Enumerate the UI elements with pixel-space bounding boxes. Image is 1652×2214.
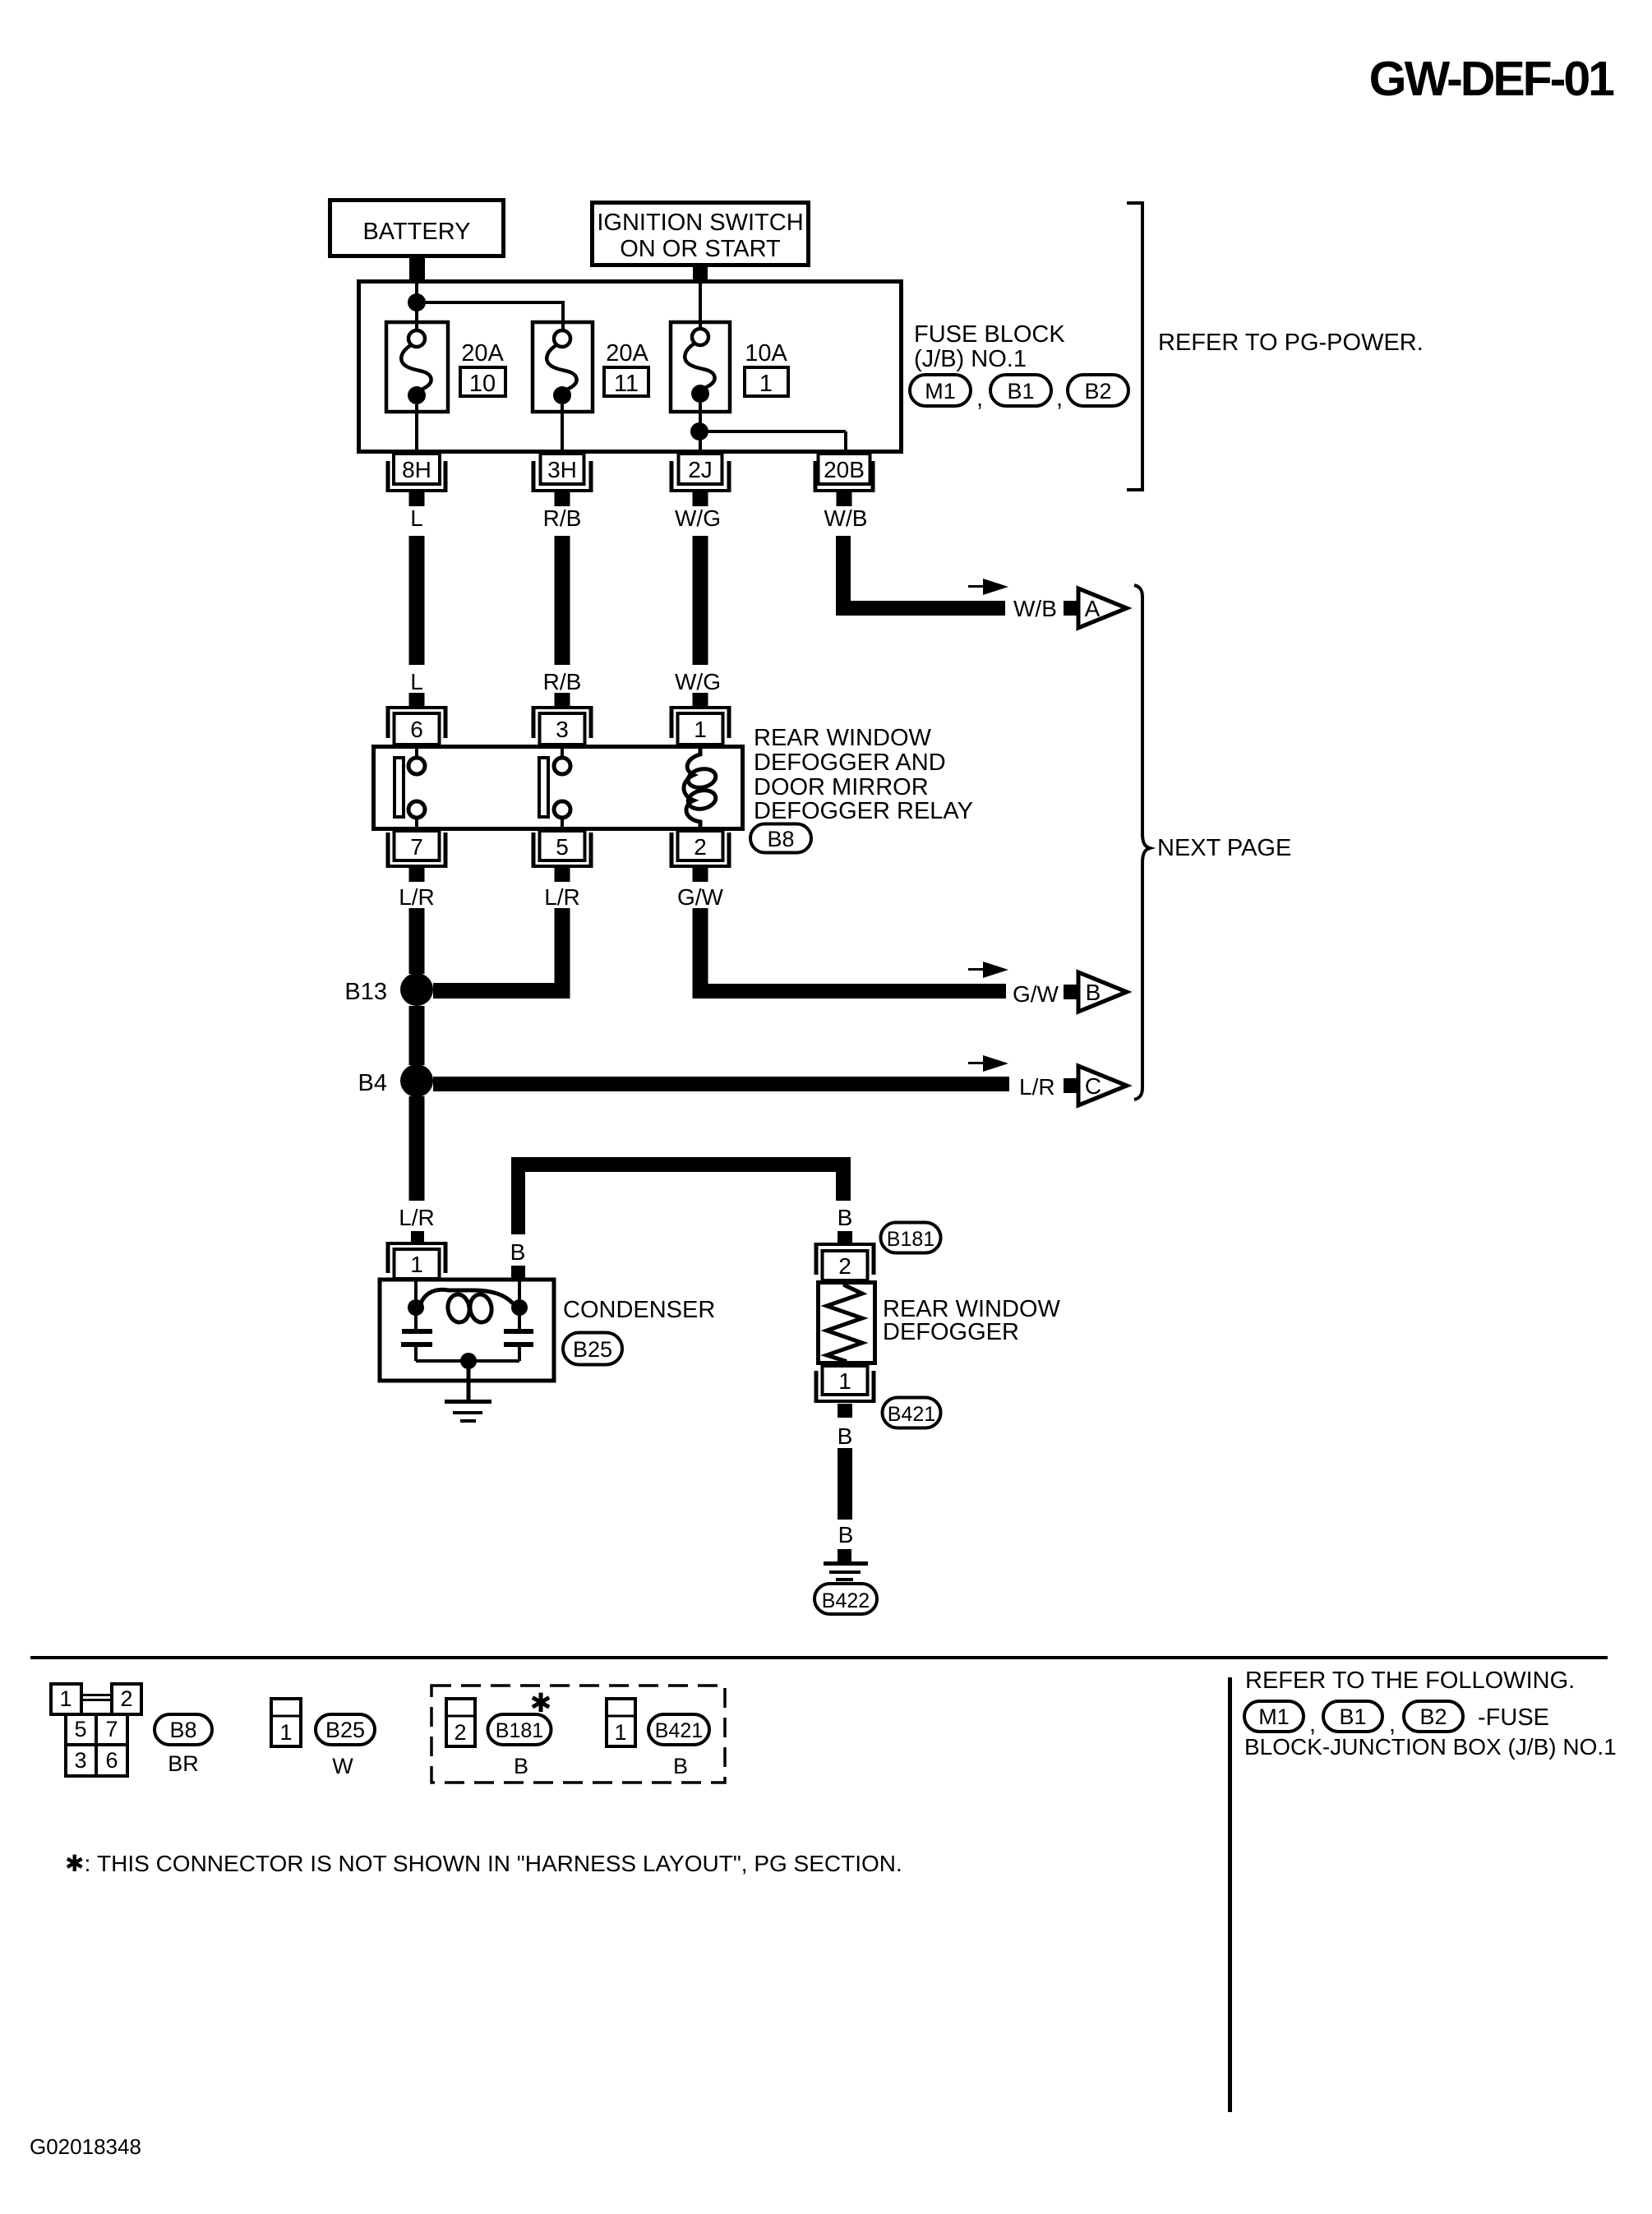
svg-text:-FUSE: -FUSE (1478, 1704, 1549, 1731)
svg-text:5: 5 (556, 834, 569, 860)
svg-text:1: 1 (59, 1686, 72, 1711)
relay pin 5 connector (532, 831, 593, 882)
svg-text:1: 1 (410, 1252, 423, 1277)
connector ref B422 (814, 1584, 877, 1614)
relay coil 1-2 (684, 745, 718, 831)
svg-text:REFER TO THE FOLLOWING.: REFER TO THE FOLLOWING. (1245, 1667, 1575, 1694)
label wire B right (838, 1205, 853, 1230)
condenser B25 (380, 1280, 554, 1381)
svg-text:FUSE BLOCK: FUSE BLOCK (914, 321, 1065, 348)
svg-text:B25: B25 (325, 1718, 365, 1742)
label fuse 1 10A (745, 340, 788, 397)
refer to the following (1245, 1667, 1575, 1694)
wire W/G vertical (693, 536, 708, 665)
label wire W/G (2) (675, 669, 721, 694)
wire battery feed to fuse 10 (415, 281, 418, 330)
fuse block (J/B) no.1 (359, 282, 902, 452)
svg-text:ON OR START: ON OR START (620, 236, 781, 262)
label -FUSE (1478, 1704, 1549, 1731)
label wire L/R (2) (544, 884, 580, 910)
svg-text:B: B (838, 1423, 853, 1449)
fuse 10 20A (386, 322, 448, 412)
svg-text:1: 1 (279, 1720, 292, 1745)
svg-text:3H: 3H (547, 457, 577, 482)
svg-text:B2: B2 (1084, 379, 1111, 404)
svg-text:W/B: W/B (1013, 596, 1057, 621)
label G/W at arrow B (1013, 981, 1059, 1007)
fuse 11 20A (533, 322, 593, 412)
wire G/W from pin 2 (693, 908, 708, 984)
svg-text:B: B (510, 1239, 526, 1265)
legend ref B8 (155, 1714, 212, 1776)
wire R/B vertical (555, 536, 570, 665)
label fuse 10 20A (460, 340, 505, 397)
wire L/R from pin 5 (555, 908, 570, 999)
svg-text:✱: THIS CONNECTOR IS NOT SHOWN: ✱: THIS CONNECTOR IS NOT SHOWN IN "HARNE… (65, 1851, 902, 1876)
svg-text:B13: B13 (344, 979, 387, 1005)
svg-text:20B: 20B (824, 457, 865, 482)
brace next page (1134, 585, 1150, 1100)
svg-text:W: W (332, 1754, 353, 1778)
connector ref B181 (881, 1223, 941, 1253)
connector ref B8 (750, 824, 811, 853)
label next page (1157, 835, 1291, 861)
label wire W/B (824, 505, 868, 531)
wire fuse 10 to connector 8H (415, 404, 418, 450)
svg-text:B421: B421 (655, 1719, 703, 1742)
label fuse 11 20A (604, 340, 648, 397)
svg-text:1: 1 (614, 1720, 626, 1745)
svg-text:B: B (673, 1754, 688, 1778)
svg-text:B: B (514, 1754, 528, 1778)
legend connector B421 (607, 1699, 635, 1746)
node B13 (400, 973, 433, 1006)
wire L/R to condenser (409, 1096, 425, 1201)
wire L/R to arrow C (433, 1077, 1009, 1091)
label wire R/B (543, 505, 582, 531)
svg-text:REFER TO PG-POWER.: REFER TO PG-POWER. (1158, 330, 1424, 356)
svg-text:6: 6 (410, 717, 423, 742)
svg-text:1: 1 (838, 1368, 851, 1394)
label wire R/B (2) (543, 669, 582, 694)
svg-text:L: L (410, 505, 423, 531)
label B4 (358, 1070, 387, 1096)
svg-text:B181: B181 (496, 1719, 543, 1742)
svg-text:BLOCK-JUNCTION BOX (J/B) NO.1: BLOCK-JUNCTION BOX (J/B) NO.1 (1244, 1734, 1617, 1760)
wire fuse 11 to connector 3H (561, 404, 564, 450)
label L/R at arrow C (1019, 1074, 1055, 1100)
relay pin 1 connector (670, 693, 731, 745)
connector 8H (386, 454, 448, 506)
condenser capacitor right (504, 1316, 533, 1361)
svg-text:B1: B1 (1007, 379, 1034, 404)
connector 20B (814, 454, 875, 506)
svg-text:DEFOGGER AND: DEFOGGER AND (754, 750, 946, 776)
svg-text:B181: B181 (887, 1228, 934, 1251)
svg-text:G/W: G/W (677, 884, 724, 910)
label rear window defogger (883, 1296, 1061, 1345)
svg-text:C: C (1085, 1073, 1101, 1099)
svg-text:2: 2 (120, 1686, 132, 1711)
svg-text:11: 11 (614, 371, 639, 397)
connector ref M1 (910, 375, 971, 406)
connector defogger pin 2 (B181) (814, 1231, 876, 1280)
wire battery stub (409, 256, 425, 281)
ref B1 (1323, 1701, 1382, 1732)
svg-text:B421: B421 (888, 1403, 935, 1426)
svg-text:R/B: R/B (543, 505, 582, 531)
svg-text:5: 5 (74, 1717, 86, 1741)
svg-text:1: 1 (694, 717, 707, 742)
wire junction to connector 20B (707, 431, 846, 450)
label wire L (2) (410, 669, 423, 694)
svg-text:NEXT PAGE: NEXT PAGE (1157, 835, 1291, 861)
svg-text:G02018348: G02018348 (30, 2134, 141, 2159)
svg-text:BATTERY: BATTERY (362, 219, 470, 245)
svg-text:B4: B4 (358, 1070, 387, 1096)
svg-text:B: B (838, 1522, 854, 1547)
svg-text:IGNITION SWITCH: IGNITION SWITCH (597, 210, 803, 236)
node battery junction (408, 293, 426, 311)
condenser ground bus (416, 1353, 519, 1369)
svg-text:,: , (1056, 385, 1063, 412)
legend connector B181 (446, 1699, 475, 1746)
node B4 (400, 1064, 433, 1097)
svg-text:10A: 10A (745, 340, 787, 367)
svg-text:DOOR MIRROR: DOOR MIRROR (754, 774, 929, 800)
svg-text:2J: 2J (688, 457, 713, 482)
svg-text:B: B (1086, 980, 1101, 1005)
relay pin 2 connector (670, 831, 731, 882)
label wire L/R (3) (399, 1205, 435, 1230)
label fuse block (914, 321, 1065, 372)
svg-text:L: L (410, 669, 423, 694)
direction arrow B (968, 962, 1008, 978)
svg-text:✱: ✱ (530, 1688, 552, 1718)
svg-text:(J/B) NO.1: (J/B) NO.1 (914, 346, 1027, 372)
label B13 (344, 979, 387, 1005)
svg-text:2: 2 (838, 1253, 851, 1279)
svg-text:W/G: W/G (675, 669, 721, 694)
legend ref B181 (488, 1688, 552, 1778)
direction arrow C (968, 1055, 1008, 1072)
legend ref B25 (316, 1714, 375, 1778)
connector ref B421 (883, 1398, 941, 1428)
wire fuse 1 down (699, 403, 702, 450)
doc number (30, 2134, 141, 2159)
svg-text:W/G: W/G (675, 505, 721, 531)
wire battery junction to fuse 11 (424, 301, 563, 330)
node fuse 1 output junction (690, 422, 708, 440)
label wire B (4) (838, 1522, 854, 1547)
svg-text:6: 6 (105, 1748, 118, 1773)
svg-text:2: 2 (454, 1720, 466, 1745)
ignition switch (593, 203, 809, 265)
svg-text:20A: 20A (606, 340, 648, 367)
battery (330, 201, 504, 256)
wire B to ground (838, 1448, 852, 1520)
legend ref B421 (648, 1714, 709, 1778)
ref B2 (1404, 1701, 1463, 1732)
svg-text:8H: 8H (402, 457, 431, 482)
rear window defogger element (819, 1280, 875, 1365)
label wire B (3) (838, 1423, 853, 1449)
label refer to pg-power (1158, 330, 1424, 356)
legend connector B8 pin layout (51, 1684, 141, 1776)
svg-text:BR: BR (168, 1751, 199, 1776)
svg-text:L/R: L/R (399, 884, 435, 910)
label block-junction box (1244, 1734, 1617, 1760)
svg-text:M1: M1 (1258, 1704, 1290, 1729)
label wire W/G (675, 505, 721, 531)
svg-text:7: 7 (105, 1717, 118, 1741)
connector condenser pin 1 (386, 1231, 448, 1279)
svg-text:B8: B8 (169, 1718, 196, 1742)
svg-text:A: A (1085, 596, 1101, 621)
svg-text:GW-DEF-01: GW-DEF-01 (1369, 52, 1615, 106)
label wire L/R (399, 884, 435, 910)
wire B condenser to defogger (511, 1157, 851, 1234)
svg-text:,: , (976, 385, 983, 412)
label relay name (754, 725, 973, 824)
label W/B at arrow A (1013, 596, 1057, 621)
label wire G/W (677, 884, 724, 910)
svg-text:B: B (838, 1205, 853, 1230)
wire G/W to arrow B (693, 984, 1007, 999)
ref M1 (1244, 1701, 1304, 1732)
ground B422 (824, 1549, 868, 1581)
svg-text:3: 3 (74, 1748, 86, 1773)
vertical divider (1228, 1677, 1232, 2112)
svg-text:2: 2 (694, 834, 707, 860)
svg-text:B2: B2 (1419, 1704, 1447, 1729)
label condenser (563, 1297, 715, 1323)
footnote (65, 1851, 902, 1876)
wire B stub into condenser (511, 1266, 525, 1279)
svg-text:3: 3 (556, 717, 569, 742)
wire L/R from pin 7 (409, 908, 425, 974)
svg-text:L/R: L/R (544, 884, 580, 910)
connector ref B1 (990, 375, 1051, 406)
svg-text:M1: M1 (925, 379, 956, 404)
wire ignition stub (693, 265, 708, 281)
legend connector B25 (271, 1699, 301, 1746)
svg-text:G/W: G/W (1013, 981, 1059, 1007)
svg-text:B8: B8 (767, 827, 794, 851)
svg-text:L/R: L/R (399, 1205, 435, 1230)
svg-text:7: 7 (410, 834, 423, 860)
svg-text:20A: 20A (461, 340, 504, 367)
svg-text:L/R: L/R (1019, 1074, 1055, 1100)
condenser coil (408, 1280, 528, 1324)
svg-text:B25: B25 (573, 1337, 612, 1362)
wire W/B to next page (836, 536, 1005, 616)
bracket refer to pg-power (1127, 203, 1142, 490)
fuse 1 10A (671, 322, 730, 412)
legend dashed group (431, 1686, 725, 1783)
svg-text:DEFOGGER RELAY: DEFOGGER RELAY (754, 798, 973, 824)
svg-text:1: 1 (759, 371, 773, 397)
svg-text:W/B: W/B (824, 505, 868, 531)
connector ref B25 (563, 1333, 622, 1365)
connector ref B2 (1068, 375, 1128, 406)
relay contact 3-5 (539, 745, 570, 831)
condenser ground (445, 1369, 491, 1423)
connector 3H (532, 454, 593, 506)
wire L vertical (409, 536, 425, 665)
svg-text:B422: B422 (822, 1589, 870, 1612)
relay pin 7 connector (386, 831, 448, 882)
label wire L (410, 505, 423, 531)
connector 2J (670, 454, 731, 506)
arrow B (1064, 972, 1127, 1012)
wire B13 to pin5 wire (433, 983, 570, 999)
svg-text:REAR WINDOW: REAR WINDOW (754, 725, 932, 751)
arrow C (1064, 1066, 1127, 1105)
direction arrow A (968, 579, 1008, 595)
arrow A (1064, 588, 1127, 628)
svg-text:10: 10 (469, 371, 496, 397)
label wire B left (510, 1239, 526, 1265)
relay pin 6 connector (386, 693, 448, 745)
relay pin 3 connector (532, 693, 593, 745)
wire B13 to B4 (409, 1006, 425, 1065)
relay contact 6-7 (395, 745, 425, 831)
wire ignition feed to fuse 1 (699, 281, 702, 329)
relay box: rear window defogger and door mirror defogger relay B8 (374, 747, 743, 829)
svg-text:DEFOGGER: DEFOGGER (883, 1319, 1019, 1345)
condenser capacitor left (401, 1316, 432, 1361)
svg-text:B1: B1 (1339, 1704, 1366, 1729)
svg-text:R/B: R/B (543, 669, 582, 694)
connector defogger pin 1 (B421) (814, 1366, 876, 1418)
title GW-DEF-01 (1369, 52, 1615, 106)
separator line (30, 1656, 1608, 1659)
svg-text:CONDENSER: CONDENSER (563, 1297, 715, 1323)
